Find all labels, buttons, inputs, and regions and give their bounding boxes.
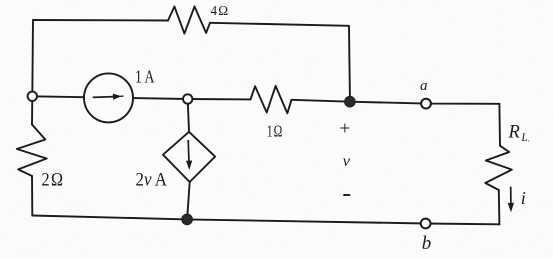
dependent source diamond	[163, 132, 215, 182]
wire right vertical upper	[498, 104, 501, 146]
resistor RL	[485, 146, 512, 190]
svg-text:v: v	[343, 153, 351, 170]
wire left vertical lower	[31, 176, 33, 216]
label minus	[343, 194, 350, 196]
node filled middle	[345, 96, 356, 107]
current arrow i	[508, 187, 514, 213]
wire left vertical upper	[32, 20, 33, 125]
resistor 2ohm	[17, 125, 47, 177]
node filled bottom	[182, 214, 193, 225]
wire middle rail right	[292, 100, 500, 104]
svg-text:1 A: 1 A	[135, 67, 155, 87]
wire dependent-source branch lower	[187, 182, 190, 219]
current source I1 circle	[84, 73, 133, 122]
svg-text:4 Ω: 4 Ω	[211, 4, 229, 19]
wire dependent-source branch upper	[188, 99, 189, 132]
resistor 1ohm	[251, 86, 292, 113]
wire right vertical lower	[498, 190, 501, 224]
terminal a circle	[421, 99, 431, 109]
wire top-left segment	[33, 19, 168, 22]
wire top-right segment and right drop to node	[210, 23, 350, 102]
svg-text:a: a	[420, 78, 428, 94]
wire middle rail left	[32, 96, 250, 99]
svg-text:2 Ω: 2 Ω	[42, 170, 64, 191]
node open left	[28, 92, 37, 101]
node open middle	[183, 94, 192, 103]
svg-text:i: i	[521, 188, 526, 208]
svg-text:b: b	[422, 233, 432, 254]
terminal b circle	[421, 219, 431, 229]
current source I1 arrow	[93, 94, 124, 100]
wire bottom rail	[32, 216, 499, 225]
svg-text:2v A: 2v A	[136, 170, 168, 191]
svg-text:+: +	[340, 118, 351, 139]
dependent source arrow	[186, 140, 192, 170]
resistor 4ohm	[168, 7, 210, 34]
svg-text:1 Ω: 1 Ω	[267, 122, 283, 141]
